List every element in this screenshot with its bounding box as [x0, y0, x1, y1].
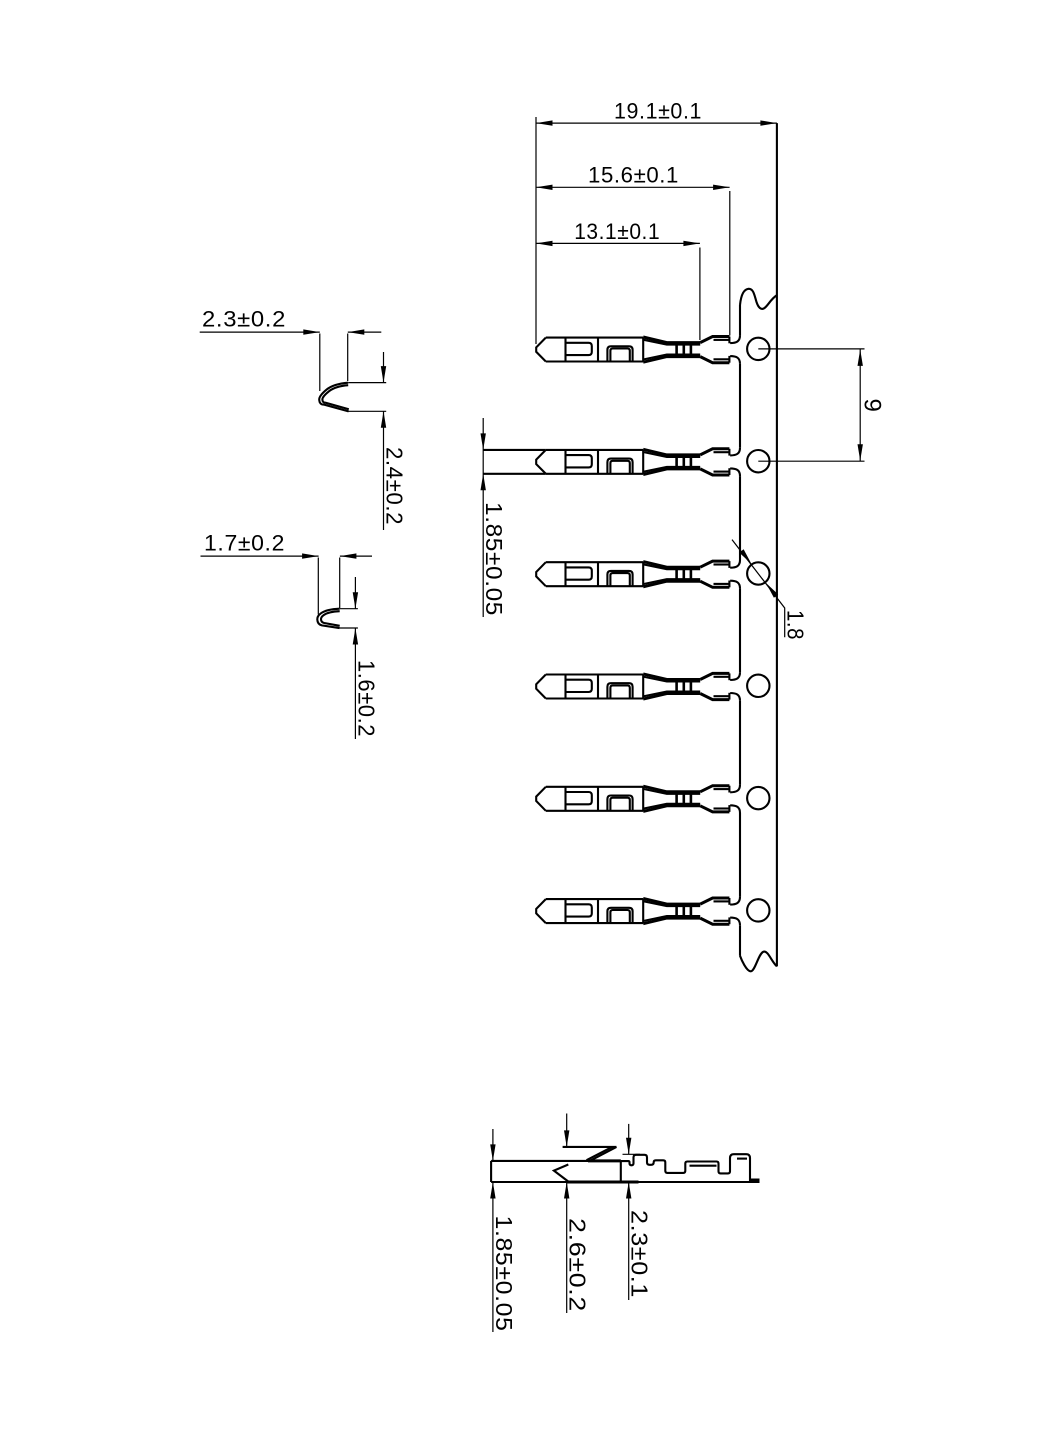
- dimple inner outline: [610, 461, 629, 474]
- insulation wing bottom inner line: [714, 807, 730, 809]
- divider line 1: [564, 899, 566, 923]
- main view: terminal strip: [483, 123, 777, 971]
- divider line 3: [642, 675, 644, 699]
- divider line 1: [564, 787, 566, 811]
- extension line at wing start: [699, 248, 701, 341]
- dimple outer outline: [607, 459, 632, 474]
- terminal end bottom edge: [728, 356, 730, 363]
- sprocket hole 6: [747, 899, 769, 921]
- crimp taper bottom bold edge: [643, 806, 700, 812]
- dimple outer outline: [607, 908, 632, 923]
- crimp taper bottom inner edge: [643, 467, 700, 472]
- strip fillet above tab 3: [730, 560, 740, 568]
- tip chevron side view: [554, 1165, 569, 1183]
- svg-text:1.6±0.2: 1.6±0.2: [353, 660, 379, 737]
- terminal tip chevron: [536, 450, 546, 474]
- wire: terminal body top edge: [546, 786, 643, 788]
- insulation wing top bold edge: [700, 898, 729, 904]
- hook inner curve: [322, 385, 348, 409]
- divider line 1: [564, 562, 566, 586]
- crimp taper bottom bold edge: [643, 581, 700, 587]
- bottom edge thin: [491, 1181, 759, 1183]
- crimp taper bottom bold edge: [643, 469, 700, 475]
- wire: terminal body top edge: [546, 337, 643, 339]
- retention lance diagonal outer: [590, 1147, 617, 1161]
- insulation wing top inner line: [714, 900, 730, 902]
- wire: terminal body bottom edge: [546, 473, 643, 475]
- svg-text:2.3±0.1: 2.3±0.1: [627, 1210, 653, 1298]
- svg-text:9: 9: [859, 399, 886, 413]
- terminal end top edge: [728, 786, 730, 793]
- divider line 1: [564, 338, 566, 362]
- dimple inner outline: [610, 685, 629, 698]
- crimp taper top bold edge: [643, 786, 700, 792]
- top edge bold segment: [588, 1159, 621, 1162]
- crimp taper top bold edge: [643, 449, 700, 455]
- dimple outer outline: [607, 346, 632, 361]
- dimension 1.7±0.2: [201, 531, 373, 615]
- crimp taper bottom bold edge: [643, 918, 700, 924]
- terminal tip chevron: [536, 675, 546, 699]
- insulation wing bottom bold edge: [700, 806, 729, 812]
- divider line 1: [564, 450, 566, 474]
- terminal end top edge: [728, 561, 730, 568]
- detail view A: wire crimp section: [319, 383, 349, 412]
- divider line 2: [597, 338, 599, 362]
- carrier strip top break line: [740, 289, 777, 309]
- insulation wing bottom inner line: [714, 583, 730, 585]
- terminal end bottom edge: [728, 468, 730, 475]
- dimension 2.3±0.1 (side view): [623, 1124, 653, 1300]
- crimp taper top bold edge: [643, 674, 700, 680]
- svg-text:2.3±0.2: 2.3±0.2: [202, 307, 286, 332]
- terminal T5: [536, 786, 729, 812]
- sprocket hole 3: [747, 562, 769, 584]
- hook inner curve: [321, 611, 340, 626]
- strip left edge segments: [739, 305, 741, 335]
- strip fillet above tab 6: [730, 897, 740, 905]
- dimple inner outline: [610, 349, 629, 362]
- divider line 3: [642, 338, 644, 362]
- crimp serration bars: [675, 679, 678, 695]
- divider line 2: [597, 787, 599, 811]
- side view: terminal profile: [491, 1147, 759, 1182]
- divider line 2: [597, 562, 599, 586]
- contact slot cutout: [566, 343, 592, 355]
- insulation wing top inner line: [714, 451, 730, 453]
- terminal end top edge: [728, 449, 730, 456]
- dimension 1.6±0.2: [340, 577, 380, 739]
- insulation wing top bold edge: [700, 786, 729, 792]
- contact slot cutout: [566, 904, 592, 916]
- terminal T4: [536, 673, 729, 699]
- strip fillet above tab 2: [730, 448, 740, 456]
- divider line 3: [642, 450, 644, 474]
- crimp taper top inner edge: [643, 340, 700, 345]
- crimp taper top inner edge: [643, 901, 700, 906]
- dimple outer outline: [607, 683, 632, 698]
- dimension 13.1±0.1: [536, 219, 700, 340]
- terminal T6: [536, 898, 729, 924]
- insulation wing top bold edge: [700, 337, 729, 343]
- insulation wing bottom bold edge: [700, 357, 729, 363]
- insulation wing bottom bold edge: [700, 918, 729, 924]
- crimp serration bars: [675, 342, 678, 358]
- insulation wing top inner line: [714, 563, 730, 565]
- dimension 15.6±0.1: [536, 163, 730, 336]
- crimp taper bottom inner edge: [643, 804, 700, 809]
- strip fillet below tab 2: [730, 468, 740, 476]
- terminal end bottom edge: [728, 805, 730, 812]
- strip fillet above tab 5: [730, 785, 740, 793]
- insulation wing bottom inner line: [714, 695, 730, 697]
- terminal T3: [536, 561, 729, 587]
- dimension 2.3±0.2: [200, 307, 382, 392]
- svg-text:1.85±0.05: 1.85±0.05: [481, 502, 507, 616]
- insulation wing bottom bold edge: [700, 581, 729, 587]
- wire: terminal body top edge: [546, 673, 643, 675]
- crimp serration bars: [675, 454, 678, 470]
- carrier strip bottom break line: [740, 952, 777, 972]
- svg-text:19.1±0.1: 19.1±0.1: [614, 99, 702, 124]
- rear post inner line: [737, 1158, 747, 1160]
- hook outer curve: [317, 609, 339, 628]
- dimension 19.1±0.1: [536, 99, 777, 345]
- svg-text:15.6±0.1: 15.6±0.1: [588, 163, 679, 188]
- divider line 1: [564, 675, 566, 699]
- dimension 2.6±0.2 (side view): [564, 1114, 591, 1314]
- contact slot cutout: [566, 792, 592, 804]
- box right end edge: [620, 1161, 622, 1182]
- crimp taper bottom bold edge: [643, 357, 700, 363]
- sprocket hole 2: [747, 450, 769, 472]
- terminal end top edge: [728, 337, 730, 344]
- terminal tip chevron: [536, 562, 546, 586]
- strip fillet below tab 1: [730, 356, 740, 364]
- bottom edge bold segment: [567, 1181, 639, 1184]
- terminal end top edge: [728, 898, 730, 905]
- extension line at terminal end: [729, 191, 731, 336]
- svg-text:13.1±0.1: 13.1±0.1: [574, 219, 660, 244]
- crimp taper top bold edge: [643, 899, 700, 905]
- insulation wing top bold edge: [700, 561, 729, 567]
- dimension 9 (hole pitch): [758, 349, 885, 461]
- insulation wing bottom inner line: [714, 471, 730, 473]
- terminal tip chevron: [536, 899, 546, 923]
- terminal tip chevron: [536, 787, 546, 811]
- dimension 1.85±0.05 (side view): [490, 1129, 517, 1332]
- wire: terminal body bottom edge: [546, 810, 643, 812]
- retention lance top: [563, 1146, 617, 1148]
- crimp taper bottom inner edge: [643, 355, 700, 360]
- strip fillet above tab 4: [730, 672, 740, 680]
- insulation wing top inner line: [714, 788, 730, 790]
- contact slot cutout: [566, 455, 592, 467]
- sprocket hole 4: [747, 675, 769, 697]
- dimple inner outline: [610, 910, 629, 923]
- extension line at terminal tip: [535, 117, 537, 344]
- terminal T2: [483, 449, 729, 475]
- sprocket hole 5: [747, 787, 769, 809]
- dimension 1.85±0.05 (terminal width): [481, 418, 508, 617]
- wire: terminal body top edge: [546, 898, 643, 900]
- divider line 2: [597, 450, 599, 474]
- left end edge: [490, 1161, 492, 1182]
- detail view B: insulation crimp section: [317, 609, 339, 628]
- extension lines of measured terminal: [483, 449, 546, 451]
- wire: terminal body bottom edge: [546, 585, 643, 587]
- hook outer curve: [319, 383, 348, 412]
- strip fillet below tab 4: [730, 693, 740, 701]
- top edge of box: [491, 1160, 621, 1162]
- insulation wing bottom inner line: [714, 358, 730, 360]
- rear profile outline: [621, 1154, 750, 1182]
- terminal tip chevron: [536, 338, 546, 362]
- strip fillet below tab 3: [730, 581, 740, 589]
- insulation wing top inner line: [714, 339, 730, 341]
- crimp taper bottom inner edge: [643, 916, 700, 921]
- insulation wing top bold edge: [700, 673, 729, 679]
- crimp taper top inner edge: [643, 789, 700, 794]
- svg-text:1.8: 1.8: [783, 610, 809, 640]
- terminal T1: [536, 337, 729, 363]
- divider line 3: [642, 899, 644, 923]
- terminal end top edge: [728, 673, 730, 680]
- divider line 2: [597, 675, 599, 699]
- wire: terminal body bottom edge: [546, 697, 643, 699]
- leader/dimension 1.8 (hole diameter): [732, 540, 809, 640]
- svg-text:1.85±0.05: 1.85±0.05: [491, 1216, 517, 1332]
- dimple inner outline: [610, 573, 629, 586]
- strip edge-on bold line: [750, 1179, 760, 1182]
- insulation wing top bold edge: [700, 449, 729, 455]
- crimp taper top bold edge: [643, 337, 700, 343]
- retention lance diagonal inner: [587, 1147, 613, 1160]
- dimple outer outline: [607, 796, 632, 811]
- terminal end bottom edge: [728, 693, 730, 700]
- divider line 2: [597, 899, 599, 923]
- insulation wing bottom bold edge: [700, 694, 729, 700]
- crimp taper top inner edge: [643, 564, 700, 569]
- crimp taper top inner edge: [643, 677, 700, 682]
- insulation wing bottom bold edge: [700, 469, 729, 475]
- wire barrel inner line: [690, 1165, 717, 1167]
- wire: terminal body top edge: [546, 561, 643, 563]
- svg-text:1.7±0.2: 1.7±0.2: [204, 531, 285, 556]
- divider line 3: [642, 562, 644, 586]
- crimp serration bars: [675, 903, 678, 919]
- wire: terminal body top edge: [546, 449, 643, 451]
- insulation wing top inner line: [714, 676, 730, 678]
- crimp taper bottom inner edge: [643, 579, 700, 584]
- terminal end bottom edge: [728, 917, 730, 924]
- sprocket hole 1: [747, 338, 769, 360]
- wire: terminal body bottom edge: [546, 922, 643, 924]
- strip fillet below tab 6: [730, 918, 740, 926]
- contact slot cutout: [566, 567, 592, 579]
- crimp taper bottom inner edge: [643, 692, 700, 697]
- wire: terminal body bottom edge: [546, 360, 643, 362]
- svg-text:2.6±0.2: 2.6±0.2: [565, 1218, 591, 1312]
- crimp serration bars: [675, 791, 678, 807]
- carrier strip right edge: [776, 123, 778, 966]
- crimp taper bottom bold edge: [643, 694, 700, 700]
- dimension 2.4±0.2: [348, 352, 407, 530]
- strip fillet above tab 1: [730, 335, 740, 343]
- crimp taper top bold edge: [643, 562, 700, 568]
- crimp serration bars: [675, 566, 678, 582]
- crimp taper top inner edge: [643, 452, 700, 457]
- dimple outer outline: [607, 571, 632, 586]
- terminal end bottom edge: [728, 581, 730, 588]
- dimple inner outline: [610, 798, 629, 811]
- svg-text:2.4±0.2: 2.4±0.2: [381, 447, 407, 525]
- contact slot cutout: [566, 680, 592, 692]
- divider line 3: [642, 787, 644, 811]
- strip fillet below tab 5: [730, 805, 740, 813]
- insulation wing bottom inner line: [714, 920, 730, 922]
